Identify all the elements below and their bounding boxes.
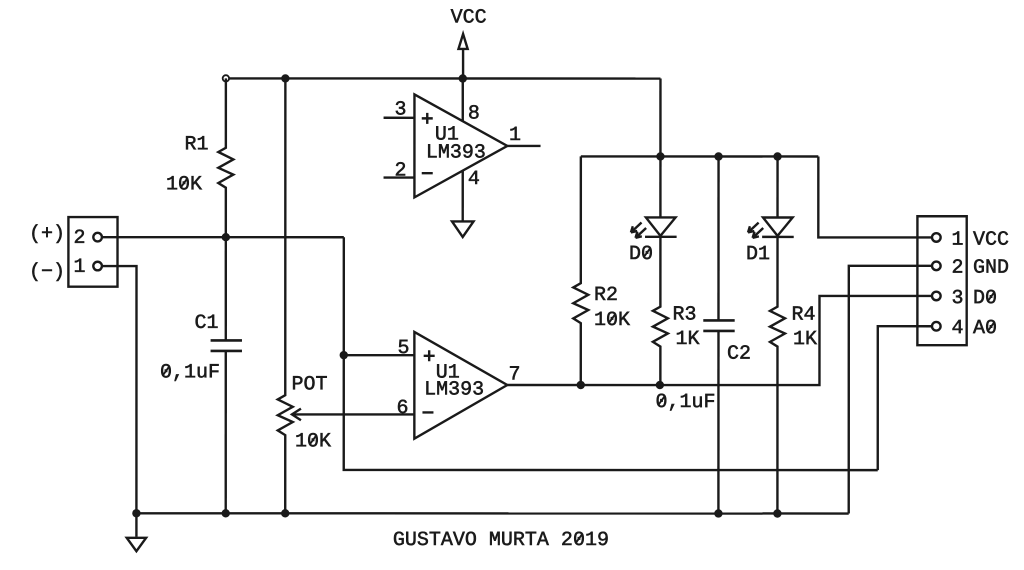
node: junction dot D0 (656, 152, 664, 160)
minus sign U1B (422, 411, 433, 413)
svg-text:2: 2 (952, 257, 964, 280)
wire: top rail drop to LED rail (659, 79, 661, 157)
svg-text:1: 1 (509, 124, 521, 147)
svg-text:8: 8 (468, 102, 480, 125)
node: junction dot C1 bottom (222, 509, 230, 517)
resistor R2 (573, 156, 630, 385)
svg-text:C1: C1 (194, 312, 218, 335)
potentiometer POT (278, 78, 415, 513)
svg-text:1: 1 (952, 229, 964, 252)
slashed zero overlays (163, 178, 995, 543)
D0 light arrows (631, 223, 646, 238)
connector J1 (left) (29, 217, 118, 287)
zero slash A0 right connector (988, 322, 995, 331)
svg-text:R2: R2 (594, 284, 618, 307)
svg-text:10K: 10K (594, 309, 630, 332)
zero slash C1 0,1uF (163, 366, 170, 375)
resistor R3 (653, 237, 700, 385)
node: junction dot R1/C1 (222, 233, 230, 241)
svg-text:4: 4 (951, 317, 963, 340)
svg-text:R1: R1 (185, 133, 209, 156)
svg-text:3: 3 (951, 287, 963, 310)
svg-text:A0: A0 (973, 317, 997, 340)
svg-text:VCC: VCC (973, 229, 1009, 252)
POT wiper arrow (292, 409, 301, 421)
wire: pin 5 U1B (344, 354, 415, 356)
wire: output rail pin 7 (507, 296, 932, 385)
capacitor C1 (160, 237, 242, 513)
wire: (+) input to comparator (102, 236, 344, 238)
zero slash D0 right connector (988, 292, 995, 301)
svg-text:0,1uF: 0,1uF (655, 391, 715, 414)
zero slash C2 0,1uF (658, 396, 665, 405)
svg-text:D0: D0 (629, 243, 653, 266)
svg-text:10K: 10K (295, 430, 331, 453)
svg-text:1K: 1K (793, 328, 817, 351)
ground symbol bottom left (127, 513, 146, 551)
plus sign U1A (422, 113, 433, 124)
connector J2 (right) (917, 216, 1009, 345)
svg-text:0,1uF: 0,1uF (160, 361, 220, 384)
node: junction dot POT top (281, 74, 289, 82)
svg-text:(+): (+) (29, 223, 65, 246)
node: junction dot pin5 (340, 351, 348, 359)
minus sign U1A (422, 172, 433, 174)
pin 3 stub U1A (384, 117, 415, 119)
wire: op-amp power vertical (462, 78, 464, 220)
pin 2 stub U1A (384, 176, 415, 178)
LED D0 (629, 156, 677, 266)
svg-text:R4: R4 (791, 304, 815, 327)
svg-text:10K: 10K (166, 173, 202, 196)
svg-text:D1: D1 (746, 243, 770, 266)
svg-text:R3: R3 (672, 304, 696, 327)
wire: top VCC rail (226, 77, 661, 80)
capacitor C2 (655, 156, 751, 513)
node: junction dot R2 bottom (577, 381, 585, 389)
wire: LED rail to VCC pin 1 (818, 157, 932, 238)
wire: GND pin 2 (849, 266, 932, 514)
node: junction dot C2 bottom (714, 509, 722, 517)
svg-text:7: 7 (508, 363, 520, 386)
svg-text:1: 1 (74, 256, 86, 279)
svg-text:LM393: LM393 (426, 141, 486, 164)
resistor R1 (166, 78, 233, 237)
node: junction dot R3 bottom (656, 381, 664, 389)
node: junction dot POT bottom (281, 509, 289, 517)
svg-text:LM393: LM393 (424, 378, 484, 401)
zero slash R1 10K (181, 178, 188, 187)
plus sign U1B (424, 350, 435, 361)
ground symbol under op-amp U1A (452, 221, 474, 237)
svg-text:6: 6 (396, 397, 408, 420)
node: junction dot D1 (773, 152, 781, 160)
power VCC symbol (451, 6, 487, 78)
svg-text:1K: 1K (675, 328, 699, 351)
wire: LED rail (581, 155, 819, 157)
D1 light arrows (748, 223, 763, 238)
svg-text:4: 4 (468, 168, 480, 191)
node: junction dot R4 bottom (773, 509, 781, 517)
zero slash POT 10K (310, 435, 317, 444)
svg-text:POT: POT (291, 373, 327, 396)
svg-text:5: 5 (397, 337, 409, 360)
node: open circle at R1 top corner (223, 75, 229, 81)
svg-text:C2: C2 (727, 343, 751, 366)
svg-text:2: 2 (395, 159, 407, 182)
zero slash D0 label (644, 248, 651, 257)
node: junction dot VCC line (459, 74, 467, 82)
svg-text:GND: GND (973, 257, 1009, 280)
svg-text:3: 3 (395, 98, 407, 121)
zero slash 2019 title (576, 534, 583, 543)
zero slash R2 10K (609, 314, 616, 323)
wire: (-) input to ground (102, 266, 137, 513)
svg-text:(−): (−) (29, 261, 65, 284)
op-amp U1B LM393 (414, 332, 507, 439)
svg-text:VCC: VCC (451, 6, 487, 29)
node: junction dot C2 (714, 152, 722, 160)
wire: bottom ground rail (136, 512, 848, 515)
wire: A0 pin 4 (878, 326, 932, 470)
wire: output stub pin 1 U1A (507, 145, 540, 147)
svg-text:2: 2 (74, 227, 86, 250)
svg-text:D0: D0 (973, 287, 997, 310)
wire: (+) node vertical (344, 237, 878, 470)
resistor R4 (770, 237, 817, 514)
op-amp U1A LM393 (414, 94, 507, 197)
node: junction dot ground left (132, 509, 140, 517)
LED D1 (746, 156, 794, 266)
